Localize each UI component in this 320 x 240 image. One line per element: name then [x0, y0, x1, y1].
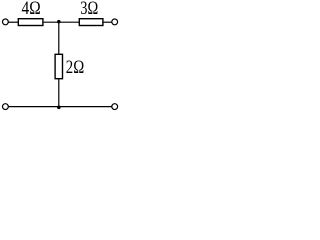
junction node M (bottom)	[57, 106, 61, 110]
wire top-right: R2 to terminal B	[103, 21, 112, 23]
svg-text:2Ω: 2Ω	[66, 56, 84, 77]
wire vertical: R3 to node M	[58, 78, 60, 107]
resistor R3 (2 ohm, vertical)	[55, 54, 62, 78]
terminal C (open circle, bottom-left)	[3, 104, 9, 110]
svg-text:4Ω: 4Ω	[22, 0, 41, 18]
resistor R1 (4 ohm)	[18, 19, 43, 26]
terminal D (open circle, bottom-right)	[112, 104, 118, 110]
terminal B (open circle, top-right)	[112, 19, 118, 25]
wire top-left: terminal A to R1	[8, 21, 18, 23]
wire vertical: node N to R3	[58, 22, 60, 54]
junction node N (top)	[57, 20, 61, 24]
wire bottom rail	[8, 106, 112, 108]
resistor R2 (3 ohm)	[79, 19, 103, 26]
terminal A (open circle, top-left)	[3, 19, 9, 25]
svg-text:3Ω: 3Ω	[80, 0, 98, 18]
wire top-middle: R1 to node N	[43, 21, 79, 23]
